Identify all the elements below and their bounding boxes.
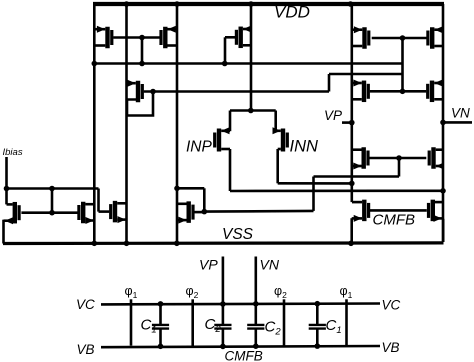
svg-text:VB: VB — [382, 340, 400, 355]
svg-text:VB: VB — [77, 342, 95, 357]
svg-text:VP: VP — [324, 108, 342, 123]
svg-text:Ibias: Ibias — [3, 147, 23, 158]
svg-text:VP: VP — [199, 257, 218, 273]
svg-text:INP: INP — [186, 139, 213, 156]
svg-text:CMFB: CMFB — [225, 349, 263, 362]
svg-text:VDD: VDD — [274, 3, 310, 22]
svg-text:VSS: VSS — [222, 226, 254, 243]
svg-text:VN: VN — [451, 106, 470, 121]
svg-text:VC: VC — [76, 297, 95, 312]
svg-text:VN: VN — [260, 257, 280, 273]
svg-text:VC: VC — [382, 298, 401, 313]
svg-text:CMFB: CMFB — [373, 212, 416, 229]
svg-text:INN: INN — [290, 138, 319, 156]
